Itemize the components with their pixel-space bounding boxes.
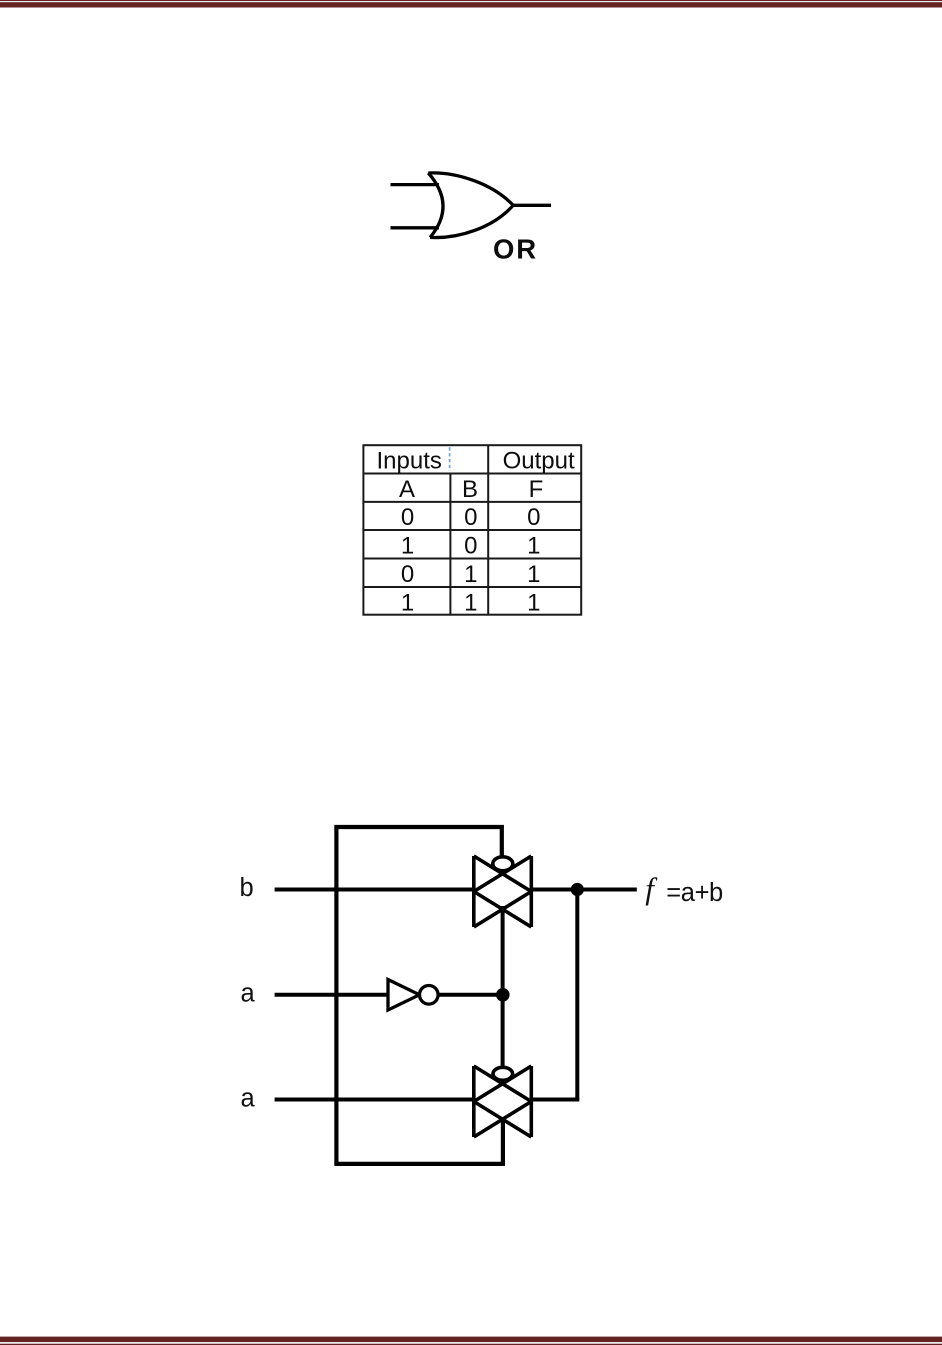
page top border (thick band) bbox=[0, 2, 942, 7]
svg-text:1: 1 bbox=[464, 590, 477, 617]
svg-text:A: A bbox=[399, 476, 415, 503]
wire: OR gate input B bbox=[391, 226, 440, 229]
wire: OR gate input A bbox=[391, 183, 440, 186]
transmission gate TG1 (top) bbox=[474, 856, 532, 927]
wire: input b bbox=[275, 888, 474, 892]
svg-text:1: 1 bbox=[464, 561, 477, 588]
wire: OR gate output bbox=[513, 204, 551, 207]
or-gate bbox=[428, 173, 513, 238]
wire: inverter output to junction bbox=[438, 993, 503, 997]
truth table merged-cell dashed divider bbox=[449, 447, 451, 471]
page bottom border (thick band) bbox=[0, 1337, 942, 1343]
svg-text:0: 0 bbox=[401, 504, 414, 531]
svg-text:1: 1 bbox=[527, 590, 540, 617]
wire: top gate lower X to middle junction bbox=[501, 906, 505, 1067]
wire: top gate output bbox=[531, 888, 637, 892]
svg-text:1: 1 bbox=[401, 590, 414, 617]
circuit enclosure box (left, top, bottom sides) bbox=[336, 827, 503, 1164]
svg-text:a: a bbox=[241, 980, 256, 1008]
page bottom border (thin line) bbox=[0, 1344, 942, 1345]
svg-text:OR: OR bbox=[493, 233, 538, 264]
svg-text:0: 0 bbox=[464, 504, 477, 531]
wire: input a (bottom) bbox=[275, 1098, 474, 1102]
truth table text bbox=[377, 447, 575, 616]
svg-text:Inputs: Inputs bbox=[377, 447, 442, 474]
svg-text:F: F bbox=[529, 476, 544, 503]
svg-text:f: f bbox=[645, 871, 658, 906]
truth table grid bbox=[363, 445, 581, 615]
wire: vertical from output junction down to bottom gate output bbox=[575, 890, 579, 1100]
svg-text:1: 1 bbox=[401, 532, 414, 559]
svg-text:0: 0 bbox=[464, 532, 477, 559]
svg-text:0: 0 bbox=[527, 504, 540, 531]
svg-text:=a+b: =a+b bbox=[666, 879, 723, 907]
inverter bbox=[388, 980, 438, 1011]
node: output junction bbox=[571, 883, 584, 896]
transmission gate TG2 (bottom) bbox=[474, 1066, 532, 1137]
wire: bottom gate output to right vertical bbox=[531, 1098, 579, 1102]
svg-text:B: B bbox=[462, 476, 478, 503]
svg-text:1: 1 bbox=[527, 532, 540, 559]
svg-text:1: 1 bbox=[527, 561, 540, 588]
wire: input a (middle) bbox=[275, 993, 388, 997]
svg-text:Output: Output bbox=[503, 447, 575, 474]
page top border (thin line) bbox=[0, 0, 942, 1]
svg-text:a: a bbox=[241, 1084, 256, 1112]
node: inverter output junction bbox=[496, 988, 510, 1002]
svg-text:0: 0 bbox=[401, 561, 414, 588]
svg-text:b: b bbox=[240, 874, 254, 902]
